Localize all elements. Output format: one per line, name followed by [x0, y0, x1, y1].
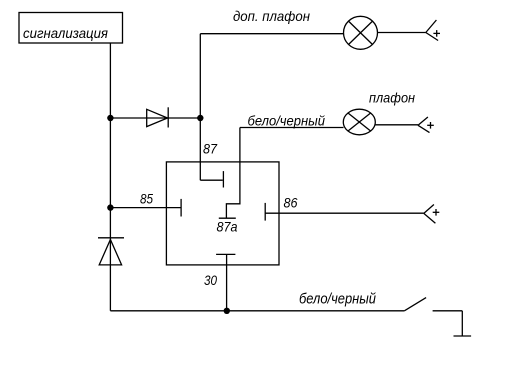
svg-text:сигнализация: сигнализация — [23, 25, 108, 41]
svg-text:плафон: плафон — [369, 90, 415, 106]
svg-text:85: 85 — [140, 191, 153, 207]
svg-text:бело/черный: бело/черный — [299, 291, 377, 308]
svg-text:бело/черный: бело/черный — [248, 113, 326, 129]
svg-text:87а: 87а — [217, 219, 238, 235]
svg-text:30: 30 — [204, 272, 217, 288]
svg-text:86: 86 — [284, 195, 298, 211]
svg-text:87: 87 — [203, 141, 218, 157]
svg-text:доп. плафон: доп. плафон — [233, 8, 310, 24]
